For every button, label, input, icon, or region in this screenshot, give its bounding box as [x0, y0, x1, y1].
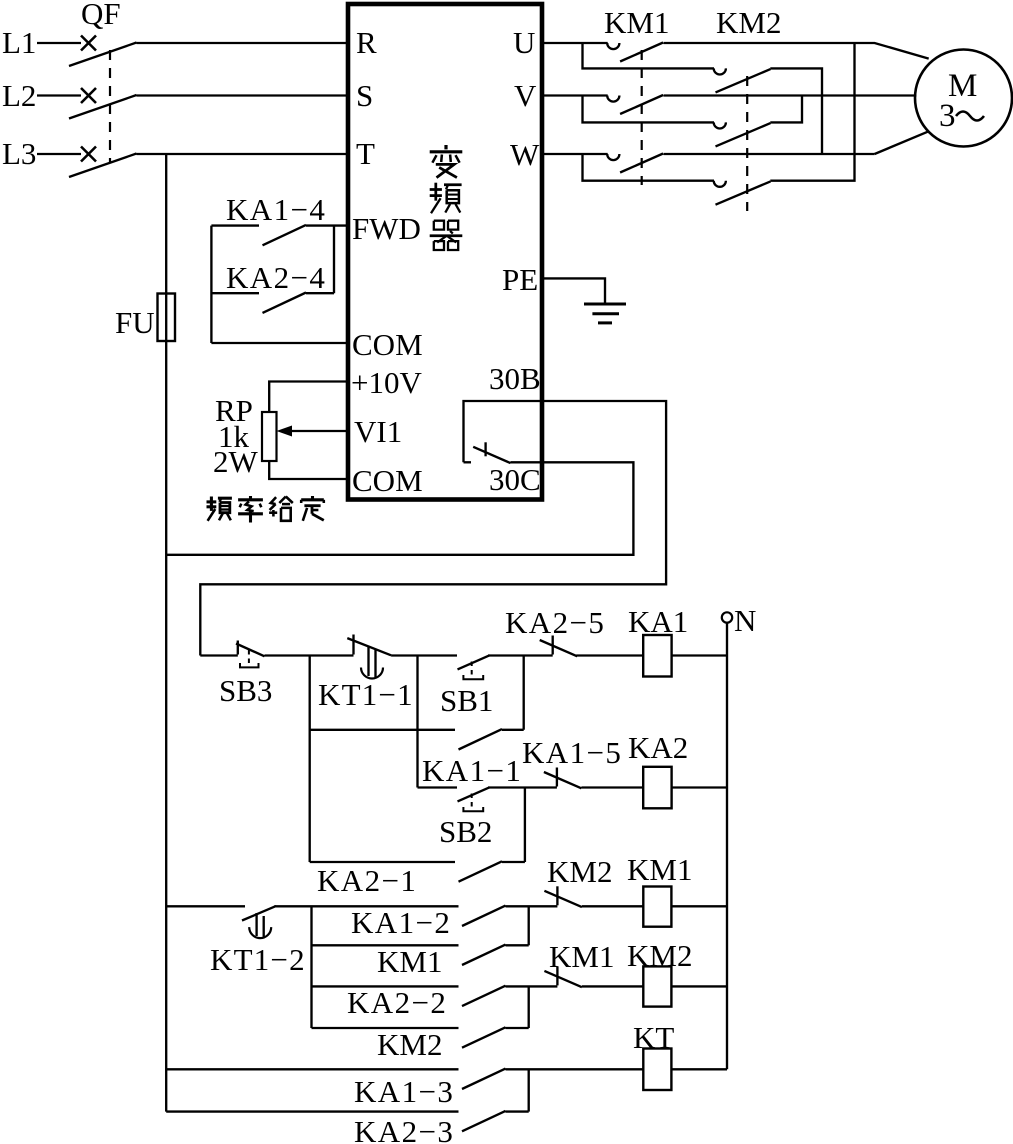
- label KT1-1: [318, 677, 414, 712]
- label KA2-2: [347, 985, 447, 1020]
- svg-text:KA2: KA2: [628, 730, 688, 765]
- relay contact 30B-30C (NC): [464, 442, 511, 463]
- wire PE: [542, 278, 605, 304]
- svg-text:30C: 30C: [489, 462, 541, 497]
- label KT: [633, 1020, 674, 1055]
- svg-text:3: 3: [939, 98, 956, 134]
- svg-text:SB1: SB1: [440, 683, 493, 718]
- wire L2 to QF: [37, 94, 81, 96]
- relay contact KA1-1: [459, 729, 503, 749]
- relay contact KA1-3: [462, 1069, 506, 1089]
- svg-text:PE: PE: [502, 262, 538, 297]
- label KM1 coil: [627, 852, 692, 887]
- contactor contact KM2 aux: [462, 1027, 506, 1047]
- wire KM2 coil to N: [671, 985, 727, 987]
- label KA1-4: [226, 192, 326, 227]
- label KA1: [628, 604, 688, 639]
- svg-text:KA1−5: KA1−5: [522, 735, 622, 770]
- wire SB2 branch vertical: [416, 656, 418, 788]
- terminal S: [356, 78, 373, 113]
- svg-text:KM1: KM1: [604, 5, 669, 40]
- svg-text:30B: 30B: [489, 361, 541, 396]
- wire KA2-1 to junction: [502, 788, 525, 863]
- label N: [734, 603, 756, 638]
- label KM1 (contacts): [604, 5, 669, 40]
- terminal T: [356, 136, 375, 171]
- terminal VI1: [354, 414, 402, 449]
- svg-text:COM: COM: [352, 463, 423, 498]
- wire KA2-3 junction: [506, 1069, 529, 1111]
- svg-text:SB3: SB3: [219, 673, 272, 708]
- svg-text:L3: L3: [2, 136, 36, 171]
- label SB1: [440, 683, 493, 718]
- wire N rail: [726, 623, 728, 1070]
- svg-text:SB2: SB2: [439, 814, 492, 849]
- wire FWD row left: [211, 224, 259, 226]
- label KA1-5: [522, 735, 622, 770]
- label QF: [81, 0, 121, 31]
- svg-text:V: V: [514, 78, 537, 113]
- wire KA2-1 row: [310, 861, 455, 863]
- label RP: [215, 393, 253, 428]
- wire U branch down: [583, 43, 715, 68]
- svg-text:KA1−1: KA1−1: [422, 753, 522, 788]
- svg-text:FU: FU: [115, 305, 155, 340]
- relay contact KA2-2: [462, 986, 506, 1006]
- label 频率给定: [207, 496, 324, 523]
- wire KA1-5 to KA2 coil: [581, 786, 643, 788]
- terminal FWD: [352, 211, 421, 246]
- svg-text:KA1: KA1: [628, 604, 688, 639]
- wire VI1 wiper: [290, 430, 348, 432]
- label KA1-3: [354, 1074, 454, 1109]
- svg-text:KA2−4: KA2−4: [226, 260, 326, 295]
- wire KA2-3 row: [166, 1110, 458, 1112]
- interlock contact KM2 (NC): [544, 886, 582, 907]
- wire left rail from L3: [165, 154, 167, 1112]
- wire U row: [542, 42, 855, 44]
- relay contact KA2-1: [459, 861, 503, 881]
- svg-text:L1: L1: [2, 25, 36, 60]
- wire KA1-4/KA2-4 right link: [333, 226, 335, 294]
- svg-text:KA2−1: KA2−1: [317, 863, 417, 898]
- terminal COM lower: [352, 463, 423, 498]
- wire W branch down: [583, 154, 715, 181]
- fuse FU: [158, 294, 176, 342]
- terminal PE: [502, 262, 538, 297]
- wire KA2-2 to KM1nc: [506, 985, 558, 987]
- wire L3 to QF: [37, 153, 81, 155]
- contactor coil KM2: [643, 966, 671, 1006]
- wire KA1-3 to KT coil: [506, 1068, 644, 1070]
- label KM2 aux: [377, 1027, 442, 1062]
- label KM1 interlock: [549, 939, 614, 974]
- relay contact KA2-5 (NC): [540, 636, 578, 657]
- motor label M: [948, 68, 977, 104]
- terminal U: [513, 25, 535, 60]
- svg-text:W: W: [510, 137, 540, 172]
- interlock contact KM1 (NC): [544, 966, 582, 987]
- motor label 3~: [939, 98, 984, 134]
- wire V row: [542, 94, 916, 96]
- label L1: [2, 25, 36, 60]
- RP wiper arrowhead: [277, 426, 293, 437]
- wire KM1 branch row: [312, 944, 459, 946]
- svg-text:KA1−2: KA1−2: [351, 905, 451, 940]
- contactor KM2 pole 1: [714, 68, 771, 92]
- svg-text:2W: 2W: [213, 444, 259, 479]
- svg-text:KM2: KM2: [627, 938, 692, 973]
- terminal R: [356, 25, 377, 60]
- label KM1 aux: [377, 944, 442, 979]
- svg-text:COM: COM: [352, 327, 423, 362]
- label KM2 (contacts): [716, 5, 781, 40]
- wire 30C out: [166, 462, 633, 555]
- label L3: [2, 136, 36, 171]
- svg-text:KT1−2: KT1−2: [210, 942, 306, 977]
- wire 30B out: [200, 401, 666, 656]
- contactor KM2 pole 2: [714, 122, 771, 146]
- svg-text:KM1: KM1: [549, 939, 614, 974]
- KM2 mechanical link (dashed): [746, 76, 748, 211]
- pushbutton SB3 (NC): [200, 641, 264, 668]
- label KA2-3: [354, 1114, 454, 1144]
- wire W to motor: [875, 131, 929, 154]
- label KA2-4: [226, 260, 326, 295]
- svg-text:KT1−1: KT1−1: [318, 677, 414, 712]
- wire row3 left: [166, 905, 245, 907]
- time-delay contact KT1-1 (NC): [347, 635, 391, 679]
- label KA1-1: [422, 753, 522, 788]
- wire FWD branch left vertical: [210, 226, 212, 343]
- KM1 mechanical link (dashed): [641, 50, 643, 185]
- wire KA1-1 branch left: [309, 656, 311, 863]
- wire KM2 branch row: [312, 1027, 459, 1029]
- node N terminal: [722, 612, 732, 622]
- contactor KM1 pole 3: [607, 154, 663, 173]
- relay contact KA1-5 (NC): [544, 768, 582, 789]
- label SB3: [219, 673, 272, 708]
- ground: [584, 304, 626, 323]
- svg-text:KA1−4: KA1−4: [226, 192, 326, 227]
- relay contact KA2-3: [462, 1111, 506, 1131]
- wire KA1-2 to KM2nc: [506, 905, 558, 907]
- svg-text:KM2: KM2: [547, 854, 612, 889]
- label KM2 interlock: [547, 854, 612, 889]
- motor M: [915, 50, 1012, 147]
- contactor coil KM1: [643, 887, 671, 927]
- svg-text:KM1: KM1: [377, 944, 442, 979]
- svg-text:N: N: [734, 603, 756, 638]
- wire QF to S: [137, 94, 349, 96]
- relay contact KA1-4: [263, 225, 307, 245]
- wire KM2nc to KM1 coil: [582, 905, 643, 907]
- label 2W: [213, 444, 259, 479]
- svg-text:S: S: [356, 78, 373, 113]
- wire KA2 coil to N: [672, 786, 727, 788]
- svg-text:L2: L2: [2, 78, 36, 113]
- inverter label 变: [430, 145, 463, 178]
- wire row4 left: [312, 985, 459, 987]
- svg-text:FWD: FWD: [352, 211, 421, 246]
- wire KM2 pole1 to W lead: [770, 68, 822, 154]
- wire KM2 pole2 to V lead: [770, 96, 802, 123]
- svg-text:KA2−3: KA2−3: [354, 1114, 454, 1144]
- wire KM2 feed vertical: [310, 906, 312, 1028]
- svg-text:KM2: KM2: [716, 5, 781, 40]
- wire KA2-4 row left: [211, 292, 259, 294]
- pushbutton SB2 (NO): [458, 787, 490, 811]
- svg-text:KT: KT: [633, 1020, 674, 1055]
- svg-text:R: R: [356, 25, 377, 60]
- svg-text:KM1: KM1: [627, 852, 692, 887]
- inverter label 频: [430, 183, 462, 214]
- circuit breaker QF poles: [69, 36, 137, 178]
- wire QF to R: [137, 42, 349, 44]
- wire KM2 aux junction: [506, 986, 529, 1028]
- wire KT1-1 to SB1: [391, 654, 457, 656]
- wire SB2 to KA1-5: [488, 786, 557, 788]
- relay contact KA2-4: [263, 293, 307, 313]
- wire KM1 coil to N: [671, 905, 727, 907]
- svg-text:U: U: [513, 25, 535, 60]
- wire KA1-1 to junction: [502, 656, 524, 730]
- wire U to motor: [855, 43, 929, 59]
- wire QF to T: [137, 153, 349, 155]
- wire KM1 aux junction: [506, 906, 529, 945]
- label KT1-2: [210, 942, 306, 977]
- relay coil KA1: [643, 635, 671, 677]
- svg-text:QF: QF: [81, 0, 121, 31]
- label KA2-5: [505, 605, 605, 640]
- wire SB1 to KA2-5: [488, 654, 553, 656]
- contactor KM1 pole 2: [607, 95, 663, 114]
- svg-text:KA2−5: KA2−5: [505, 605, 605, 640]
- relay contact KA1-2: [462, 906, 506, 926]
- potentiometer RP body: [262, 412, 277, 461]
- wire L1 to QF: [37, 42, 81, 44]
- inverter label 器: [430, 221, 463, 250]
- wire FWD row right: [306, 224, 348, 226]
- pushbutton SB1 (NO): [458, 655, 490, 679]
- svg-text:KA2−2: KA2−2: [347, 985, 447, 1020]
- wire row5 left: [166, 1068, 458, 1070]
- relay coil KA2: [643, 767, 671, 809]
- label KA1-2: [351, 905, 451, 940]
- wire RP bottom to COM: [269, 461, 348, 479]
- QF mechanical link (dashed): [109, 50, 111, 163]
- terminal 30B: [489, 361, 541, 396]
- wire KA2-4 row right: [306, 292, 334, 294]
- inverter U1 box: [348, 4, 542, 500]
- terminal V: [514, 78, 537, 113]
- wire SB3 to KT1-1: [265, 654, 354, 656]
- terminal +10V: [351, 365, 422, 400]
- terminal COM upper: [352, 327, 423, 362]
- wire V branch down: [583, 96, 715, 123]
- svg-text:+10V: +10V: [351, 365, 422, 400]
- wire KA2-5 to KA1 coil: [576, 654, 643, 656]
- wire KT coil to N: [671, 1068, 727, 1070]
- label KM2 coil: [627, 938, 692, 973]
- wire to COM: [211, 342, 348, 344]
- contactor KM2 pole 3: [714, 181, 771, 205]
- svg-text:VI1: VI1: [354, 414, 402, 449]
- svg-text:KM2: KM2: [377, 1027, 442, 1062]
- terminal W: [510, 137, 540, 172]
- contactor KM1 pole 1: [607, 43, 663, 62]
- terminal 30C: [489, 462, 541, 497]
- contactor contact KM1 aux: [462, 945, 506, 965]
- time-delay contact KT1-2 (NO): [242, 906, 276, 938]
- label KA2-1: [317, 863, 417, 898]
- wire W row: [542, 153, 875, 155]
- label FU: [115, 305, 155, 340]
- svg-text:KA1−3: KA1−3: [354, 1074, 454, 1109]
- timer coil KT: [643, 1049, 671, 1091]
- wire KM2 pole3 to U lead: [770, 43, 854, 181]
- wire row2 left: [418, 786, 458, 788]
- wire +10V to RP top: [269, 382, 348, 413]
- label 1k: [218, 419, 250, 454]
- svg-text:T: T: [356, 136, 375, 171]
- wire KA1-1 row: [310, 729, 455, 731]
- wire KT1-2 to KA1-2: [274, 905, 458, 907]
- wire KM1nc to KM2 coil: [582, 985, 643, 987]
- label SB2: [439, 814, 492, 849]
- label KA2: [628, 730, 688, 765]
- wire KA1 coil to N: [672, 654, 727, 656]
- label L2: [2, 78, 36, 113]
